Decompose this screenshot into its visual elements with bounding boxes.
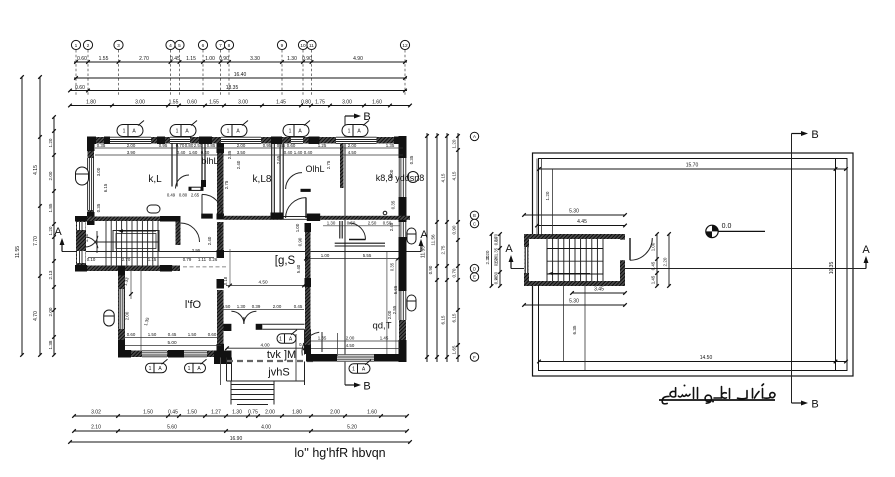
dim row above door <box>221 309 304 311</box>
svg-text:0.60: 0.60 <box>127 332 136 337</box>
svg-text:0.30: 0.30 <box>494 236 499 245</box>
svg-text:4.50: 4.50 <box>348 150 357 155</box>
svg-text:3.50: 3.50 <box>237 150 246 155</box>
svg-text:1.50: 1.50 <box>148 332 157 337</box>
svg-text:0.95: 0.95 <box>263 143 272 148</box>
right wall columns <box>399 136 407 158</box>
svg-text:2.50: 2.50 <box>194 143 203 148</box>
svg-text:0.50: 0.50 <box>383 221 392 226</box>
svg-text:0.60: 0.60 <box>217 223 222 232</box>
svg-text:2.00: 2.00 <box>330 410 340 416</box>
svg-text:0.35: 0.35 <box>390 262 395 271</box>
roof B marker top <box>792 133 804 135</box>
svg-text:4.50: 4.50 <box>346 343 355 348</box>
roof inner rectangle <box>539 159 848 371</box>
svg-text:1.50: 1.50 <box>188 332 197 337</box>
svg-text:11: 11 <box>309 43 314 49</box>
left dimension line inner <box>53 117 55 355</box>
svg-text:D: D <box>473 266 476 271</box>
svg-text:0.60: 0.60 <box>187 100 197 106</box>
top wall windows <box>110 137 151 144</box>
svg-text:2.00: 2.00 <box>273 304 282 309</box>
porch dashed line <box>227 360 313 362</box>
svg-text:1.25: 1.25 <box>318 143 327 148</box>
left dimension line middle <box>39 77 41 355</box>
svg-text:5.55: 5.55 <box>363 253 372 258</box>
section marker A left <box>61 240 63 252</box>
svg-text:1.35: 1.35 <box>494 247 499 256</box>
svg-text:1: 1 <box>279 337 282 343</box>
svg-text:3.00: 3.00 <box>342 100 352 106</box>
svg-text:0.18: 0.18 <box>223 276 228 285</box>
section marker A right <box>420 241 422 252</box>
section line A-A horizontal <box>62 251 421 253</box>
svg-text:6.15: 6.15 <box>452 313 457 322</box>
svg-text:1.00: 1.00 <box>321 253 330 258</box>
svg-text:4.15: 4.15 <box>33 165 39 175</box>
svg-text:2.00: 2.00 <box>265 410 275 416</box>
svg-text:A: A <box>862 244 870 256</box>
svg-text:2.40: 2.40 <box>236 160 241 169</box>
svg-text:4.90: 4.90 <box>353 56 363 62</box>
svg-text:1.00: 1.00 <box>651 242 656 251</box>
window bubble k8.8 <box>408 172 419 183</box>
svg-text:3.00: 3.00 <box>135 100 145 106</box>
corridor dashed line <box>183 266 227 268</box>
svg-text:1.38: 1.38 <box>48 340 53 349</box>
svg-text:1.15: 1.15 <box>148 257 157 262</box>
svg-text:6.15: 6.15 <box>103 183 108 192</box>
svg-text:5.30: 5.30 <box>569 299 579 305</box>
dims below y218 wall <box>323 225 400 227</box>
svg-text:2: 2 <box>87 43 90 49</box>
vestibule door arc lower <box>305 198 307 219</box>
svg-text:0.45: 0.45 <box>277 143 286 148</box>
svg-text:k,L8: k,L8 <box>253 174 272 185</box>
bottom right window <box>337 354 374 362</box>
stair annex left wall <box>76 221 86 271</box>
hall wall piece <box>201 214 213 219</box>
svg-text:0.45: 0.45 <box>294 304 303 309</box>
lower left window <box>119 289 125 329</box>
svg-text:2.65: 2.65 <box>191 193 200 198</box>
stair annex top wall <box>75 217 171 222</box>
svg-text:A: A <box>54 226 62 238</box>
svg-text:4: 4 <box>169 43 172 49</box>
svg-text:0.35: 0.35 <box>96 203 101 212</box>
svg-text:0.40: 0.40 <box>304 150 313 155</box>
svg-text:tvk ]M: tvk ]M <box>267 349 296 361</box>
svg-text:6.15: 6.15 <box>441 315 446 324</box>
svg-text:0.60: 0.60 <box>287 143 296 148</box>
svg-text:7.70: 7.70 <box>33 236 39 246</box>
left wall window tag <box>76 167 89 185</box>
svg-text:0.40: 0.40 <box>284 150 293 155</box>
svg-text:1.20: 1.20 <box>545 191 550 200</box>
roof stair arrow <box>550 273 590 275</box>
svg-text:1: 1 <box>75 43 78 49</box>
svg-text:2.95: 2.95 <box>192 248 201 253</box>
exterior left wall upper <box>88 143 95 225</box>
svg-text:lo'' hg'hfR hbvqn: lo'' hg'hfR hbvqn <box>294 446 385 460</box>
svg-text:E: E <box>473 275 476 280</box>
door tag capsule <box>147 205 160 213</box>
svg-text:1: 1 <box>176 129 179 135</box>
roof stair block walls <box>524 234 625 286</box>
svg-text:A: A <box>420 229 428 241</box>
svg-text:0.35: 0.35 <box>97 143 106 148</box>
svg-text:1.10: 1.10 <box>84 233 89 242</box>
svg-text:0.50: 0.50 <box>347 221 356 226</box>
roof stair mid landing line <box>547 260 603 262</box>
svg-text:1: 1 <box>123 129 126 135</box>
svg-text:0.49: 0.49 <box>167 193 176 198</box>
svg-text:B: B <box>473 213 476 218</box>
stair treads <box>105 221 107 266</box>
svg-text:14.50: 14.50 <box>700 355 713 361</box>
svg-text:1.80: 1.80 <box>86 100 96 106</box>
roof title underline <box>659 399 775 401</box>
partition walls x272 x281 <box>271 144 273 213</box>
svg-text:11.56: 11.56 <box>431 234 436 246</box>
svg-text:0.10: 0.10 <box>87 257 96 262</box>
roof dim 14.50 <box>539 361 846 363</box>
bottom window tags <box>146 363 167 373</box>
qd room dims <box>311 340 400 342</box>
bottom right window tag <box>349 364 370 374</box>
interior wall stub y244 <box>335 242 385 244</box>
exterior left wall lower <box>118 266 125 358</box>
svg-text:2.70: 2.70 <box>122 257 131 262</box>
svg-text:F: F <box>473 355 476 360</box>
svg-text:2.55: 2.55 <box>392 305 397 314</box>
svg-text:1: 1 <box>227 129 230 135</box>
porch dim 4.00 <box>227 347 305 349</box>
svg-text:1.55: 1.55 <box>209 100 219 106</box>
door arc salon <box>349 223 366 240</box>
svg-text:0.35: 0.35 <box>409 155 414 164</box>
svg-text:0.60: 0.60 <box>208 332 217 337</box>
bottom dimension line 2 <box>74 430 407 432</box>
svg-text:3.90: 3.90 <box>127 150 136 155</box>
svg-text:0.90: 0.90 <box>298 237 303 246</box>
left wall window <box>87 158 94 210</box>
top wall columns <box>87 137 96 145</box>
svg-text:1.30: 1.30 <box>232 410 242 416</box>
svg-text:1.27: 1.27 <box>211 410 221 416</box>
svg-text:1.45: 1.45 <box>276 100 286 106</box>
svg-text:1.20: 1.20 <box>48 138 53 147</box>
svg-text:0.80: 0.80 <box>185 143 194 148</box>
svg-text:2.00: 2.00 <box>387 310 392 319</box>
stair landing line <box>95 241 159 243</box>
svg-text:2.65: 2.65 <box>276 155 281 164</box>
svg-text:0.70: 0.70 <box>452 268 457 277</box>
roof title arabic <box>662 384 775 404</box>
svg-text:8: 8 <box>228 43 231 49</box>
svg-text:2.50: 2.50 <box>368 221 377 226</box>
svg-text:0.45: 0.45 <box>168 332 177 337</box>
svg-text:16.90: 16.90 <box>230 436 243 442</box>
qd.T interior dim leaders <box>386 252 388 354</box>
porch window tag <box>277 334 296 344</box>
bottom wall windows <box>142 350 167 357</box>
roof vertical construction lines above stair <box>536 159 538 235</box>
svg-text:0.90: 0.90 <box>302 56 312 62</box>
svg-text:4.00: 4.00 <box>261 425 271 431</box>
svg-text:2.20: 2.20 <box>485 255 490 264</box>
svg-text:3.00: 3.00 <box>96 167 101 176</box>
svg-text:2.75: 2.75 <box>326 160 331 169</box>
svg-text:0.45: 0.45 <box>170 56 180 62</box>
svg-text:l'fO: l'fO <box>185 299 202 311</box>
bottom wall right section <box>306 355 406 362</box>
svg-text:1: 1 <box>289 129 292 135</box>
svg-text:OlhL: OlhL <box>305 164 324 174</box>
double door arcs g.S <box>231 311 244 324</box>
right grid bubbles A C D E F <box>470 132 478 140</box>
svg-text:7: 7 <box>219 43 222 49</box>
svg-text:1.00: 1.00 <box>205 56 215 62</box>
svg-text:15.70: 15.70 <box>686 163 699 169</box>
svg-text:2.75: 2.75 <box>441 245 446 254</box>
svg-text:5.00: 5.00 <box>167 340 177 345</box>
svg-text:0.79: 0.79 <box>183 257 192 262</box>
svg-text:0.60: 0.60 <box>75 85 85 91</box>
svg-text:0.90: 0.90 <box>452 225 457 234</box>
svg-text:1.11: 1.11 <box>198 257 207 262</box>
svg-text:0.90: 0.90 <box>219 56 229 62</box>
svg-text:1.60: 1.60 <box>189 150 198 155</box>
svg-text:0.45: 0.45 <box>168 410 178 416</box>
svg-text:1.15: 1.15 <box>186 56 196 62</box>
svg-text:3.45: 3.45 <box>594 287 604 293</box>
qd dim leader x337 <box>337 333 339 356</box>
svg-text:qd,T: qd,T <box>372 321 391 332</box>
svg-text:C: C <box>473 221 476 226</box>
svg-text:5.65: 5.65 <box>393 285 398 294</box>
svg-text:10: 10 <box>300 43 306 49</box>
svg-text:0.85: 0.85 <box>207 143 216 148</box>
section marker B bottom <box>345 384 356 386</box>
svg-text:11.55: 11.55 <box>15 246 21 258</box>
corridor wall stub <box>176 221 181 245</box>
svg-text:2.13: 2.13 <box>48 270 53 279</box>
svg-text:2.10: 2.10 <box>91 425 101 431</box>
exterior right wall <box>399 136 406 362</box>
roof stair door leaf <box>629 238 631 260</box>
porch bottom wall <box>227 380 306 382</box>
svg-text:0.75: 0.75 <box>248 410 258 416</box>
svg-text:5.20: 5.20 <box>347 425 357 431</box>
svg-text:1.35: 1.35 <box>386 143 395 148</box>
partition wall x342 <box>340 143 344 188</box>
svg-text:A: A <box>473 134 476 139</box>
svg-text:4.00: 4.00 <box>260 343 270 348</box>
svg-text:1: 1 <box>348 129 351 135</box>
svg-text:blhL: blhL <box>201 156 218 166</box>
svg-text:0.40: 0.40 <box>201 150 210 155</box>
roof stair rail <box>547 249 603 275</box>
svg-text:0.90: 0.90 <box>428 265 433 274</box>
svg-text:18.35: 18.35 <box>226 85 239 91</box>
svg-text:0.40: 0.40 <box>217 235 222 244</box>
roof stair treads <box>546 239 548 281</box>
svg-text:2.00: 2.00 <box>346 336 355 341</box>
svg-text:1.30: 1.30 <box>327 221 336 226</box>
bottom dimension line 1 <box>74 415 407 417</box>
section line B-B vertical <box>344 116 346 385</box>
svg-text:2.40: 2.40 <box>207 236 212 245</box>
svg-text:1.50: 1.50 <box>187 410 197 416</box>
svg-text:1.65: 1.65 <box>452 345 457 354</box>
svg-text:4.45: 4.45 <box>577 219 587 225</box>
partition wall x172 <box>171 143 173 187</box>
svg-text:B: B <box>363 111 370 123</box>
right wall windows <box>399 158 406 197</box>
svg-text:0.26: 0.26 <box>209 257 218 262</box>
svg-text:1.55: 1.55 <box>169 100 179 106</box>
svg-text:2.00: 2.00 <box>348 143 357 148</box>
svg-text:0.95: 0.95 <box>159 143 168 148</box>
svg-text:2.35: 2.35 <box>227 150 232 159</box>
svg-text:2.00: 2.00 <box>125 311 130 320</box>
interior dim row under top wall 1 <box>95 147 403 149</box>
roof dim 3.45 <box>572 292 625 294</box>
svg-text:0.40: 0.40 <box>177 150 186 155</box>
door arc porch right <box>302 332 319 355</box>
svg-text:[g,S: [g,S <box>275 255 296 267</box>
svg-text:k8,8 yddsn8: k8,8 yddsn8 <box>376 173 425 183</box>
svg-text:1.30: 1.30 <box>237 304 246 309</box>
lower left window tag <box>104 310 115 326</box>
door stub x341 <box>339 221 341 239</box>
svg-text:0.80: 0.80 <box>179 193 188 198</box>
svg-text:B: B <box>363 381 370 393</box>
svg-text:5: 5 <box>178 43 181 49</box>
top dimension line 2 (16.40) <box>74 77 407 79</box>
interior wall y218 <box>224 216 411 220</box>
svg-text:4.15: 4.15 <box>441 173 446 182</box>
svg-text:0.70: 0.70 <box>176 143 185 148</box>
svg-text:12: 12 <box>402 43 408 49</box>
svg-text:0.0: 0.0 <box>722 223 732 230</box>
svg-text:2.00: 2.00 <box>48 171 53 180</box>
roof dim 4.45 <box>537 225 625 227</box>
top wall window tags <box>117 125 143 137</box>
svg-text:0.20: 0.20 <box>494 275 499 284</box>
grid bubbles 1-12 <box>71 40 80 49</box>
svg-text:10.35: 10.35 <box>829 262 835 275</box>
svg-text:1.35: 1.35 <box>318 336 327 341</box>
svg-text:1.40: 1.40 <box>294 150 303 155</box>
svg-text:6.35: 6.35 <box>572 325 577 334</box>
svg-text:1.85: 1.85 <box>48 203 53 212</box>
central vertical wall <box>217 143 224 215</box>
svg-text:5.60: 5.60 <box>167 425 177 431</box>
svg-text:1: 1 <box>188 366 191 372</box>
roof right-of-stair dims <box>656 234 658 286</box>
svg-text:4.15: 4.15 <box>452 171 457 180</box>
svg-text:4.70: 4.70 <box>33 311 39 321</box>
svg-text:2.75: 2.75 <box>224 180 229 189</box>
svg-text:0.45: 0.45 <box>651 261 656 270</box>
partition x307 vertical <box>305 223 311 354</box>
svg-text:B: B <box>811 399 818 411</box>
roof section line B-B <box>791 134 793 404</box>
bottom dimension line 3 (16.90) <box>70 441 410 443</box>
top dimension line 1 <box>74 61 407 63</box>
svg-text:2.70: 2.70 <box>139 56 149 62</box>
hall door arc <box>202 194 223 215</box>
svg-text:k,L: k,L <box>148 174 162 185</box>
svg-text:16.40: 16.40 <box>234 72 247 78</box>
stair direction arrow <box>120 230 156 232</box>
svg-text:3: 3 <box>117 43 120 49</box>
svg-text:1.55: 1.55 <box>99 56 109 62</box>
svg-text:3.02: 3.02 <box>91 410 101 416</box>
roof dim 10.35 vertical <box>835 159 837 371</box>
svg-text:2.00: 2.00 <box>127 143 136 148</box>
porch left wall <box>226 358 228 382</box>
svg-text:jvhS: jvhS <box>267 367 289 379</box>
svg-text:6: 6 <box>202 43 205 49</box>
svg-text:5.40: 5.40 <box>296 264 301 273</box>
vestibule door arc upper <box>286 173 302 189</box>
interior dim row under top wall 2 <box>95 154 403 156</box>
small circle k8 room <box>383 211 387 215</box>
g.S interior dims <box>226 285 304 287</box>
dims below A line <box>306 258 398 260</box>
svg-text:1.60: 1.60 <box>372 100 382 106</box>
svg-text:1.20: 1.20 <box>494 255 499 264</box>
roof B marker bottom <box>792 402 804 404</box>
svg-text:2.00: 2.00 <box>237 143 246 148</box>
roof stair door opening <box>619 240 626 261</box>
roof vertical lines below stair <box>563 286 565 362</box>
svg-text:1.60: 1.60 <box>367 410 377 416</box>
roof left small dims <box>499 234 501 286</box>
svg-text:1: 1 <box>149 366 152 372</box>
svg-text:1.45: 1.45 <box>380 336 389 341</box>
svg-text:1.45: 1.45 <box>651 275 656 284</box>
svg-text:1.50: 1.50 <box>143 410 153 416</box>
roof section line A-A <box>511 268 866 270</box>
svg-text:1: 1 <box>352 367 355 373</box>
svg-text:5.30: 5.30 <box>569 209 579 215</box>
exterior top wall <box>87 137 406 144</box>
svg-text:2.20: 2.20 <box>663 257 668 266</box>
stair annex wc door arcs <box>86 236 98 247</box>
stair annex bottom wall <box>75 266 180 272</box>
stair rail <box>113 231 159 252</box>
svg-text:0.80: 0.80 <box>301 100 311 106</box>
porch steps <box>231 384 274 386</box>
grid bubble leader lines <box>75 50 77 95</box>
roof dim 15.70 <box>539 168 846 170</box>
svg-text:4.50: 4.50 <box>258 280 268 285</box>
svg-text:A: A <box>505 243 513 255</box>
svg-text:1.00: 1.00 <box>295 223 300 232</box>
wall y327 g.S bottom <box>219 324 231 331</box>
svg-text:1.20: 1.20 <box>452 139 457 148</box>
left dimension line outer (11.55) <box>21 77 23 355</box>
right wall window tags <box>407 228 416 244</box>
roof outer rectangle <box>533 153 854 376</box>
svg-text:1.30: 1.30 <box>287 56 297 62</box>
section marker B top <box>345 115 356 117</box>
svg-text:0.35: 0.35 <box>391 200 396 209</box>
